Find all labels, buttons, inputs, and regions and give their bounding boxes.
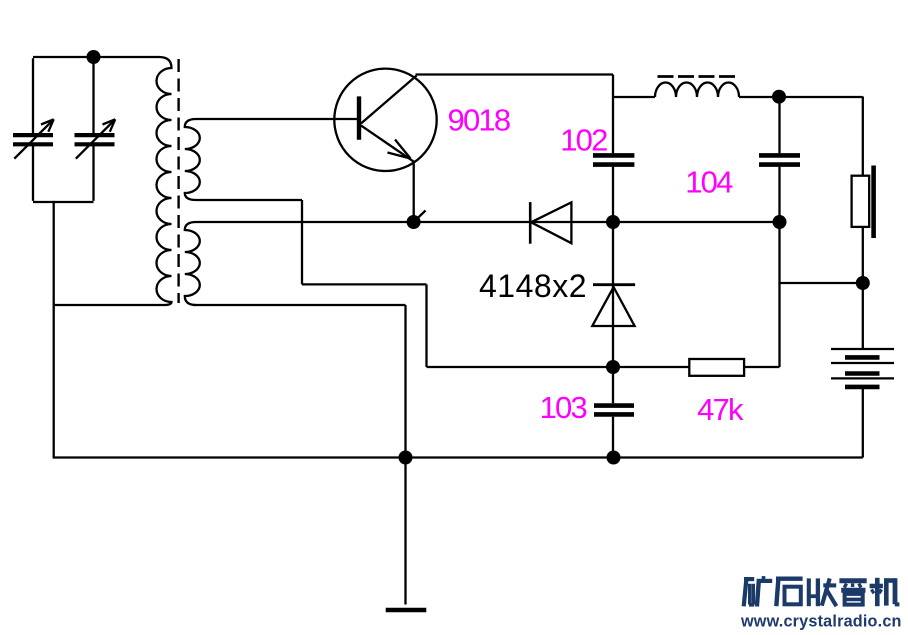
svg-text:4148x2: 4148x2 — [479, 268, 587, 304]
svg-text:47k: 47k — [697, 392, 744, 427]
svg-text:103: 103 — [540, 390, 587, 425]
svg-text:104: 104 — [685, 164, 733, 199]
svg-text:102: 102 — [560, 122, 607, 157]
svg-text:www.crystalradio.cn: www.crystalradio.cn — [740, 613, 902, 631]
svg-text:9018: 9018 — [448, 102, 510, 137]
